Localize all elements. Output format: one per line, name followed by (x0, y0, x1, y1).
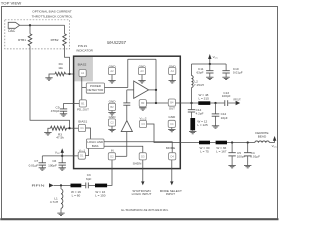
ground C10 (222, 77, 229, 79)
resistor R3 47.5k (51, 126, 67, 130)
wire C3 feed (147, 124, 199, 143)
svg-text:7.15nH: 7.15nH (194, 83, 204, 87)
wire logic to D3 (104, 146, 143, 153)
wire R4 to pin A1 (66, 73, 80, 75)
wire OUT line (176, 102, 225, 104)
ground C11 (206, 77, 213, 79)
svg-text:LOGIC INPUT: LOGIC INPUT (132, 192, 152, 196)
node VCC rail (209, 63, 211, 65)
pin B1 PD_OUT (79, 100, 86, 107)
power detector box (86, 83, 104, 93)
pin D3 SHDN (139, 153, 146, 160)
op-amp U1b second stage (121, 121, 132, 132)
svg-text:INPUT: INPUT (166, 192, 175, 196)
wire D4 mode select input (171, 160, 173, 182)
node BIAS2 (68, 73, 70, 75)
wire power detector input (82, 87, 87, 89)
wire D2 to amp2 (116, 155, 127, 157)
ground pin A2 (111, 75, 113, 81)
node C5 (231, 141, 233, 143)
pin B4 OUT (168, 99, 175, 106)
wire C1 external (66, 127, 78, 129)
capacitor C4 0.01uF (247, 143, 249, 153)
svg-text:100pF: 100pF (48, 163, 57, 167)
microstrip W=36 L=167 (216, 141, 227, 145)
svg-text:0.01µF: 0.01µF (250, 155, 260, 159)
svg-text:GND: GND (168, 115, 176, 119)
svg-text:BIAS1: BIAS1 (78, 119, 87, 123)
capacitor C6 (61, 156, 63, 163)
ground pin A3 (141, 75, 143, 81)
ground pin B3 (139, 108, 146, 110)
wire VCC2 feed line (227, 142, 255, 144)
ground pin C2 (111, 126, 113, 129)
resistor RTB1 (28, 34, 32, 46)
svg-text:L = 60: L = 60 (72, 194, 81, 198)
svg-text:B2: B2 (110, 105, 114, 109)
svg-text:100pF: 100pF (222, 94, 231, 98)
svg-text:L = 125: L = 125 (197, 123, 208, 127)
svg-text:D3: D3 (141, 154, 145, 158)
capacitor C10 0.01uF (225, 64, 227, 70)
ground pin A4 (171, 75, 173, 81)
microstrip input W=16 L=60 (71, 184, 82, 188)
wire B3 to B4 (146, 102, 168, 104)
capacitor interstage (126, 90, 128, 103)
wire D1 to logic box (85, 149, 88, 156)
svg-text:L = 150: L = 150 (95, 194, 106, 198)
wire amp1 output (149, 89, 156, 91)
ground C7 (39, 168, 46, 170)
svg-text:THROTTLEBACK CONTROL: THROTTLEBACK CONTROL (32, 14, 73, 18)
pin #1 indicator gray corner (74, 57, 93, 81)
svg-text:L = 315: L = 315 (199, 96, 210, 100)
wire VCC rail (192, 63, 227, 65)
wire RFOUT (228, 102, 235, 104)
svg-text:B1: B1 (81, 101, 85, 105)
capacitor C5 100pF (231, 143, 233, 153)
wire B1 to C9 (64, 102, 80, 104)
svg-text:D1: D1 (80, 154, 84, 158)
svg-text:VCC: VCC (213, 55, 219, 60)
ground pin C4 (171, 128, 173, 130)
ground C9 (60, 114, 67, 116)
svg-text:63pF: 63pF (196, 71, 203, 75)
wire to C3 (81, 184, 85, 186)
svg-text:RFIN: RFIN (32, 184, 45, 188)
capacitor C3 6pF series (85, 183, 87, 189)
capacitor C7 (41, 156, 43, 163)
svg-text:470pF: 470pF (51, 109, 60, 113)
wire to RTB2 (64, 25, 66, 34)
svg-text:C4: C4 (170, 122, 174, 126)
resistor R4 11k (55, 72, 66, 76)
svg-text:L = 167: L = 167 (216, 150, 227, 154)
node VCC1 (61, 155, 63, 157)
svg-text:D2: D2 (110, 154, 114, 158)
svg-text:C2: C2 (110, 121, 114, 125)
logic and bias box (87, 139, 105, 149)
svg-text:INDICATOR: INDICATOR (76, 49, 93, 53)
wire C1 to logic box (86, 128, 91, 139)
svg-text:RTB2: RTB2 (51, 38, 59, 42)
svg-text:11k: 11k (58, 66, 63, 70)
svg-text:GND: GND (109, 115, 117, 119)
dashed optional-control box (5, 20, 70, 49)
inductor L1 4.7nH (60, 185, 62, 189)
wire D2 down to input network (107, 160, 112, 186)
ground L1 (57, 213, 64, 215)
wire amp2 input (126, 132, 128, 157)
svg-text:SHDN: SHDN (133, 162, 142, 166)
ground R4 (49, 74, 55, 78)
svg-text:L = 75: L = 75 (200, 150, 209, 154)
wire between microstrips (210, 142, 216, 144)
wire top sense rail (128, 58, 156, 60)
svg-text:A2: A2 (110, 69, 114, 73)
wire DAC output (20, 24, 65, 26)
svg-text:A1: A1 (81, 71, 85, 75)
svg-text:VCC: VCC (55, 151, 61, 156)
microstrip W=30 L=75 (199, 141, 210, 145)
svg-text:DAC: DAC (8, 29, 16, 33)
svg-text:D4: D4 (171, 154, 175, 158)
svg-text:MAX2257: MAX2257 (107, 40, 126, 45)
inductor L2 7.15nH (191, 64, 193, 76)
svg-text:4.7nH: 4.7nH (50, 200, 58, 204)
node L2 junction (190, 102, 192, 104)
supply VCC output side (208, 54, 211, 59)
ground C4 (244, 166, 251, 168)
svg-text:IN: IN (111, 149, 114, 153)
wire RTB2 to BIAS2 node (65, 46, 70, 74)
svg-text:6pF: 6pF (86, 177, 91, 181)
svg-text:BIAS: BIAS (92, 144, 99, 148)
node BIAS1 (68, 127, 70, 129)
ground R3 (48, 128, 51, 132)
microstrip input W=16 L=150 (95, 184, 107, 188)
chip outline MAX2257 (74, 56, 181, 168)
svg-text:C3: C3 (141, 122, 145, 126)
ground pin B2 (111, 111, 113, 113)
microstrip W=48 L=315 (198, 101, 210, 105)
node amp1 output (155, 89, 157, 91)
DAC symbol (8, 22, 19, 28)
node C12 junction (214, 102, 216, 104)
svg-text:10pF: 10pF (221, 116, 228, 120)
ferrite bead (255, 141, 270, 143)
node DAC output (29, 24, 31, 26)
wire sense rail drop (127, 59, 129, 87)
capacitor C9 470pF (63, 103, 65, 108)
wire rail to output node (155, 59, 157, 103)
wire D3 shutdown input (142, 160, 144, 182)
capacitor C12 10pF (215, 103, 217, 114)
pin B3 (139, 100, 146, 107)
svg-text:OUT: OUT (169, 107, 175, 111)
capacitor C11 63pF (209, 64, 211, 70)
node C4 (247, 141, 249, 143)
supply VCC left (61, 152, 63, 156)
svg-text:B3: B3 (141, 101, 145, 105)
wire C3 to microstrip (89, 184, 95, 186)
capacitor C14 4.2pF (191, 103, 193, 109)
svg-text:VCC: VCC (272, 144, 278, 149)
ground C6 (59, 168, 66, 170)
svg-text:TOP VIEW: TOP VIEW (1, 1, 22, 6)
svg-text:ALL TRANSMISSION LINE UNITS AR: ALL TRANSMISSION LINE UNITS ARE IN MILS. (121, 208, 169, 212)
ground C12 (212, 126, 219, 128)
resistor RTB2 (63, 34, 67, 46)
svg-text:4.2pF: 4.2pF (196, 112, 204, 116)
svg-text:A4: A4 (171, 69, 175, 73)
node output line (155, 102, 157, 104)
wire power detector sense (105, 87, 128, 89)
op-amp U1a first stage (134, 81, 149, 98)
svg-text:BEAD: BEAD (258, 135, 267, 139)
wire amp1 input (127, 89, 134, 91)
svg-text:PIN #1: PIN #1 (78, 44, 88, 48)
wire RTB1 to BIAS1 node (30, 46, 70, 128)
svg-text:RFOUT: RFOUT (234, 97, 241, 101)
wire logic to D4 (104, 142, 172, 153)
ground C5 (228, 166, 235, 168)
svg-text:C1: C1 (80, 126, 84, 130)
svg-text:47.5k: 47.5k (56, 136, 64, 140)
figure frame (2, 7, 278, 219)
svg-text:GND: GND (109, 99, 117, 103)
wire A1 to B1 internal (81, 77, 83, 100)
node RFIN (60, 184, 62, 186)
svg-text:BIAS2: BIAS2 (78, 62, 87, 66)
svg-text:0.01µF: 0.01µF (233, 71, 243, 75)
svg-text:DETECTOR: DETECTOR (87, 88, 103, 92)
supply VCC right (269, 142, 274, 144)
svg-text:B4: B4 (170, 101, 174, 105)
svg-text:PD_OUT: PD_OUT (77, 108, 89, 112)
microstrip stub W=12 L=125 (190, 118, 195, 130)
svg-text:A3: A3 (140, 69, 144, 73)
svg-text:100pF: 100pF (237, 155, 246, 159)
svg-text:RTB1: RTB1 (18, 38, 26, 42)
capacitor C13 series (224, 100, 226, 106)
ground microstrip stub (189, 131, 196, 133)
svg-text:MODE: MODE (166, 146, 175, 150)
svg-text:0.01µF: 0.01µF (29, 163, 39, 167)
wire to RTB1 (29, 25, 31, 34)
svg-text:OPTIONAL BIAS CURRENT: OPTIONAL BIAS CURRENT (32, 10, 72, 14)
wire VCC1 external (42, 155, 78, 157)
